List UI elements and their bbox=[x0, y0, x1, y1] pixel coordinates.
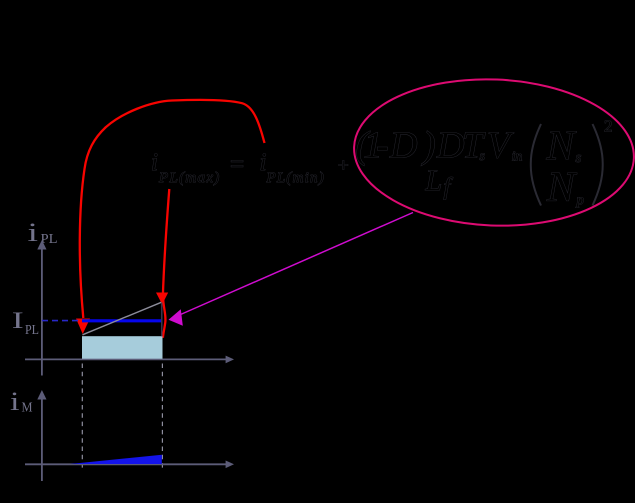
red curve from i_PL(max) to ramp top-right bbox=[163, 189, 169, 338]
upper graph y-axis label i_PL bbox=[28, 218, 58, 247]
svg-text:i: i bbox=[28, 218, 39, 247]
highlight ellipse bbox=[351, 74, 635, 231]
svg-text:i: i bbox=[260, 149, 267, 176]
svg-text:i: i bbox=[10, 387, 20, 416]
svg-text:i: i bbox=[151, 149, 158, 176]
N_s numerator bbox=[546, 124, 582, 170]
fraction denominator L_f bbox=[425, 164, 454, 201]
svg-text:D: D bbox=[389, 125, 417, 167]
magenta pointer line bbox=[176, 213, 413, 317]
red arrowhead at ramp top-right bbox=[156, 293, 168, 305]
svg-text:PL(max): PL(max) bbox=[158, 170, 221, 186]
equation term i_PL(min) bbox=[260, 149, 325, 186]
svg-text:N: N bbox=[546, 124, 577, 170]
dashed vertical guide left bbox=[81, 364, 83, 471]
svg-text:=: = bbox=[230, 151, 244, 178]
equation term i_PL(max) bbox=[151, 149, 221, 186]
svg-text:PL: PL bbox=[25, 323, 39, 338]
blue magnetizing current triangle bbox=[70, 455, 162, 464]
dark ramp right edge bbox=[161, 303, 163, 337]
I_PL level label bbox=[12, 308, 39, 338]
dashed vertical guide right bbox=[161, 364, 163, 469]
svg-text:M: M bbox=[22, 401, 33, 416]
svg-text:in: in bbox=[512, 150, 523, 165]
svg-text:PL(min): PL(min) bbox=[266, 170, 325, 186]
svg-text:s: s bbox=[480, 149, 486, 164]
red arrowhead at ramp bottom-left bbox=[76, 319, 90, 335]
fraction numerator (1-D)DT_sV_in bbox=[356, 125, 523, 167]
upper y-axis arrowhead bbox=[37, 240, 46, 250]
svg-text:I: I bbox=[12, 308, 24, 333]
lower graph y-axis label i_M bbox=[10, 387, 33, 416]
svg-text:L: L bbox=[425, 164, 443, 197]
light blue pulse rectangle bbox=[82, 336, 163, 359]
solid blue average current line bbox=[82, 319, 161, 322]
svg-text:s: s bbox=[576, 150, 582, 166]
lower graph x-axis bbox=[25, 463, 226, 465]
big right parenthesis bbox=[593, 124, 603, 206]
svg-text:): ) bbox=[421, 125, 436, 167]
lower y-axis arrowhead bbox=[37, 390, 46, 400]
svg-text:D: D bbox=[436, 125, 464, 167]
gray current ramp line bbox=[83, 302, 162, 335]
lower graph y-axis bbox=[41, 396, 43, 481]
upper graph y-axis bbox=[41, 246, 43, 376]
svg-text:+: + bbox=[338, 156, 349, 177]
svg-text:V: V bbox=[487, 125, 514, 167]
svg-text:-: - bbox=[376, 125, 389, 167]
magenta arrowhead bbox=[169, 309, 183, 326]
big left parenthesis bbox=[531, 124, 541, 206]
svg-text:f: f bbox=[444, 175, 454, 201]
svg-text:N: N bbox=[546, 165, 577, 211]
red curve from i_PL(min) to ramp bottom-left bbox=[80, 100, 265, 318]
dashed blue level line bbox=[42, 320, 82, 322]
svg-text:p: p bbox=[576, 193, 585, 209]
upper graph x-axis bbox=[25, 358, 226, 360]
N_p denominator bbox=[546, 165, 585, 211]
upper x-axis arrowhead bbox=[226, 356, 234, 364]
lower x-axis arrowhead bbox=[226, 461, 234, 469]
svg-text:2: 2 bbox=[604, 117, 613, 136]
